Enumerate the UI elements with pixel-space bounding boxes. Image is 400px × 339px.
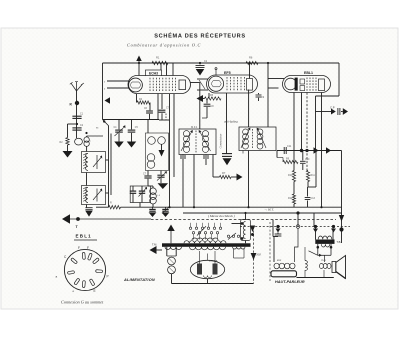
svg-text:M.F.1: M.F.1 xyxy=(191,125,198,129)
svg-text:R10: R10 xyxy=(288,174,293,177)
svg-text:Connexion G au sommet: Connexion G au sommet xyxy=(61,300,104,305)
svg-text:→ H.T.: → H.T. xyxy=(264,208,274,212)
svg-text:C13: C13 xyxy=(311,197,316,200)
svg-text:C10: C10 xyxy=(305,158,310,161)
svg-text:E: E xyxy=(94,289,96,293)
svg-text:P: P xyxy=(107,275,109,279)
svg-text:EF5: EF5 xyxy=(224,71,231,75)
svg-text:SCHÉMA DES RÉCEPTEURS: SCHÉMA DES RÉCEPTEURS xyxy=(154,32,246,40)
svg-text:HAUT-PARLEUR: HAUT-PARLEUR xyxy=(275,280,305,284)
svg-text:EBL1: EBL1 xyxy=(304,71,313,75)
svg-text:T.M.: T.M. xyxy=(152,243,157,247)
svg-text:anti-fading: anti-fading xyxy=(224,120,238,124)
svg-text:H.P.: H.P. xyxy=(256,254,262,257)
svg-text:( Masse du châssis ): ( Masse du châssis ) xyxy=(208,214,235,218)
svg-text:R11: R11 xyxy=(311,174,316,177)
svg-text:T.B.: T.B. xyxy=(337,240,342,244)
svg-text:R6: R6 xyxy=(249,56,253,60)
svg-text:Combinateur d'apposition O.C: Combinateur d'apposition O.C xyxy=(127,42,201,47)
svg-text:ECH3: ECH3 xyxy=(149,71,158,75)
svg-text:R7: R7 xyxy=(222,171,226,175)
svg-text:R1: R1 xyxy=(156,56,160,60)
svg-text:E B L 1: E B L 1 xyxy=(76,234,92,239)
svg-text:Commutateur: Commutateur xyxy=(220,133,223,149)
svg-text:R: R xyxy=(110,202,112,205)
svg-text:ALIMENTATION: ALIMENTATION xyxy=(123,278,155,282)
svg-text:C.P: C.P xyxy=(330,105,335,109)
svg-text:R12: R12 xyxy=(288,197,293,200)
svg-text:F: F xyxy=(78,246,80,250)
svg-text:exc: exc xyxy=(277,259,282,262)
svg-text:C11: C11 xyxy=(287,145,292,148)
svg-text:b.m.: b.m. xyxy=(322,259,327,262)
